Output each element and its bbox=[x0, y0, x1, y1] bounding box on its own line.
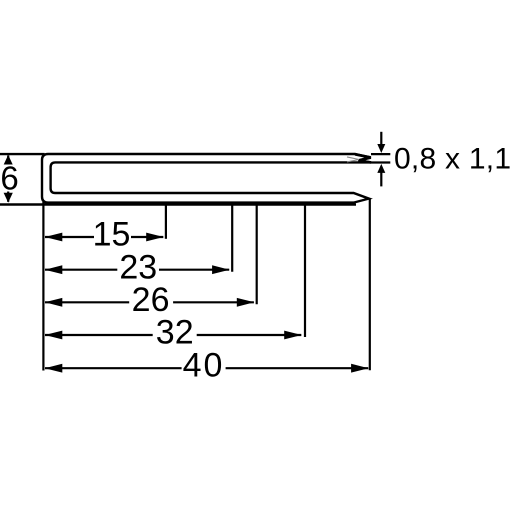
thickness arrow upper bbox=[380, 132, 382, 146]
extension line for 23 bbox=[231, 204, 233, 272]
extension line for 32 bbox=[304, 204, 306, 337]
thickness extension line upper bbox=[371, 153, 390, 155]
dimension 6 vertical line bbox=[7, 156, 9, 202]
top leg faint facet lines bbox=[347, 157, 359, 160]
dimension 6 top arrow bbox=[4, 155, 13, 165]
left datum extension line bbox=[42, 202, 44, 371]
dimension line 40 bbox=[45, 367, 368, 369]
thickness arrow lower bbox=[380, 172, 382, 187]
top leg chisel point zigzag (bold) bbox=[355, 154, 371, 162]
svg-text:40: 40 bbox=[183, 346, 225, 384]
staple body outline bbox=[42, 154, 371, 203]
dimension line 26 bbox=[45, 301, 254, 303]
dimension line 15 bbox=[45, 236, 163, 238]
svg-text:6: 6 bbox=[0, 159, 18, 196]
label 6 bbox=[0, 165, 19, 192]
extension line for 26 bbox=[256, 204, 258, 304]
dimension line 23 bbox=[45, 269, 229, 271]
dimension 6 bottom arrow bbox=[4, 193, 13, 203]
svg-text:0,8 x 1,1: 0,8 x 1,1 bbox=[394, 142, 510, 175]
extension line bottom-left bbox=[0, 203, 356, 205]
extension line top-left bbox=[0, 153, 45, 155]
extension line for 40 bbox=[369, 199, 371, 371]
thickness extension line lower bbox=[371, 161, 390, 163]
extension line for 15 bbox=[165, 204, 167, 239]
dimension line 32 bbox=[45, 334, 301, 336]
